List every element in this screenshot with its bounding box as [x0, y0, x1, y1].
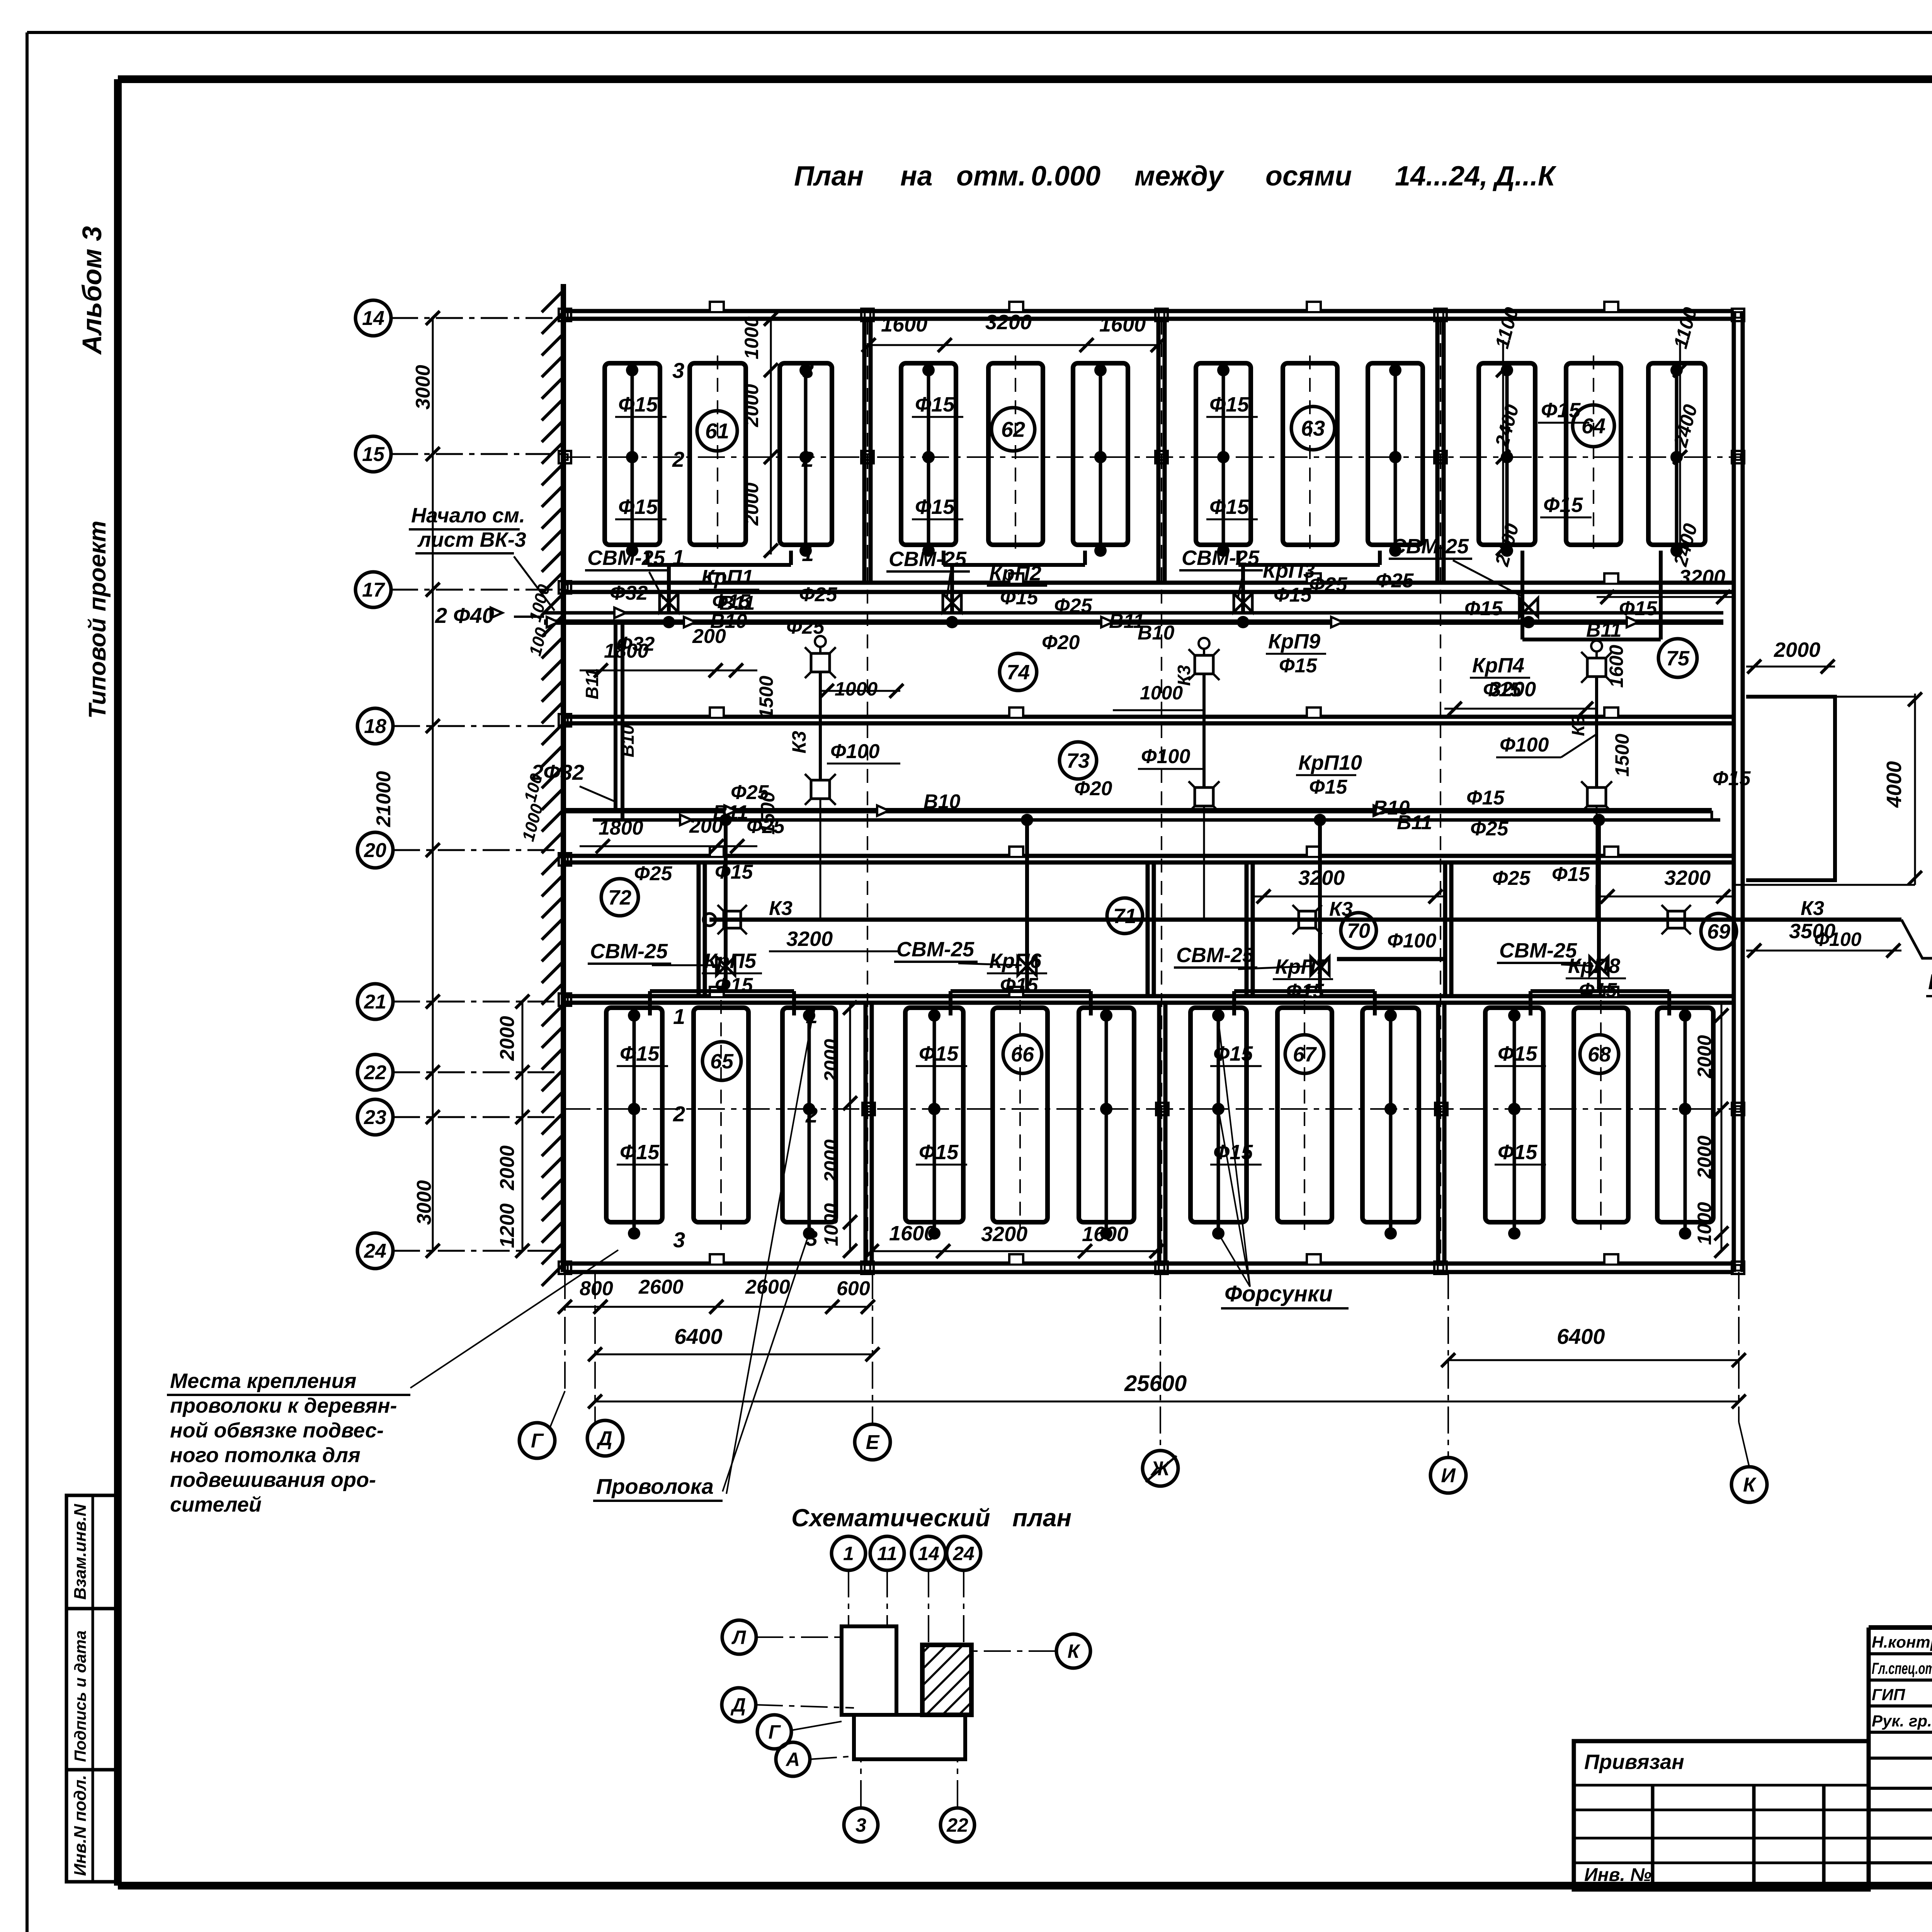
svg-text:Ф20: Ф20	[1074, 777, 1112, 800]
svg-text:Ф15: Ф15	[618, 393, 658, 416]
svg-text:Ф15: Ф15	[620, 1141, 660, 1164]
svg-text:Г: Г	[531, 1430, 544, 1452]
svg-text:Н.контр.: Н.контр.	[1872, 1633, 1932, 1651]
svg-text:1000: 1000	[1694, 1202, 1715, 1245]
svg-text:21: 21	[364, 991, 386, 1013]
svg-text:КрП6: КрП6	[989, 949, 1042, 973]
svg-text:КрП5: КрП5	[704, 949, 757, 973]
svg-text:Ф15: Ф15	[1713, 767, 1751, 790]
svg-text:20: 20	[364, 839, 386, 862]
svg-text:Ф20: Ф20	[1042, 631, 1080, 654]
svg-text:Ф15: Ф15	[1274, 584, 1312, 606]
svg-text:2600: 2600	[745, 1276, 790, 1298]
svg-text:Форсунки: Форсунки	[1225, 1281, 1333, 1306]
svg-text:0.000: 0.000	[1031, 161, 1100, 192]
svg-text:СВМ-25: СВМ-25	[896, 938, 975, 961]
svg-text:21000: 21000	[372, 771, 395, 827]
svg-text:план: план	[1012, 1504, 1071, 1532]
svg-text:65: 65	[710, 1050, 734, 1073]
svg-text:Ф15: Ф15	[715, 974, 753, 997]
svg-text:1800: 1800	[604, 640, 649, 662]
svg-text:Привязан: Привязан	[1584, 1750, 1684, 1774]
svg-text:Ф15: Ф15	[1498, 1042, 1537, 1065]
svg-text:Ф15: Ф15	[915, 393, 955, 416]
svg-text:Ф100: Ф100	[830, 740, 879, 763]
svg-text:К: К	[1743, 1474, 1757, 1496]
svg-text:Ф100: Ф100	[1141, 745, 1190, 768]
svg-text:СВМ-25: СВМ-25	[587, 546, 665, 570]
svg-text:Ф15: Ф15	[919, 1141, 959, 1164]
svg-text:Ф15: Ф15	[1000, 974, 1039, 997]
svg-text:66: 66	[1011, 1043, 1034, 1066]
svg-text:ного потолка для: ного потолка для	[170, 1444, 361, 1467]
svg-text:67: 67	[1293, 1043, 1317, 1066]
svg-text:КрП10: КрП10	[1298, 751, 1362, 774]
svg-text:24: 24	[364, 1240, 386, 1262]
svg-text:на: на	[900, 161, 933, 192]
svg-text:Ф15: Ф15	[715, 861, 753, 883]
svg-text:Ф15: Ф15	[1213, 1042, 1253, 1065]
svg-text:2000: 2000	[741, 384, 762, 427]
svg-text:К3: К3	[1174, 665, 1194, 686]
svg-text:3200: 3200	[1679, 566, 1725, 589]
svg-text:64: 64	[1582, 414, 1605, 438]
svg-text:1800: 1800	[599, 817, 643, 839]
svg-text:В10: В10	[1138, 622, 1174, 644]
svg-text:КрП8: КрП8	[1568, 954, 1620, 978]
svg-text:Ф15: Ф15	[1579, 979, 1617, 1002]
svg-text:Ф15: Ф15	[1619, 597, 1658, 620]
svg-text:Ф15: Ф15	[1209, 393, 1249, 416]
svg-text:отм.: отм.	[956, 161, 1026, 192]
svg-text:СВМ-25: СВМ-25	[1499, 939, 1577, 962]
svg-text:1600: 1600	[1082, 1223, 1128, 1246]
svg-text:1000: 1000	[835, 678, 878, 700]
svg-text:3: 3	[802, 358, 814, 383]
svg-text:КрП2: КрП2	[989, 562, 1041, 585]
svg-text:23: 23	[364, 1106, 386, 1129]
svg-text:1: 1	[802, 541, 814, 566]
svg-text:3200: 3200	[985, 311, 1032, 334]
svg-text:Ф25: Ф25	[799, 583, 838, 606]
svg-text:3200: 3200	[1298, 866, 1345, 889]
svg-text:3200: 3200	[786, 927, 833, 951]
svg-text:К3: К3	[1568, 715, 1588, 736]
svg-text:Ф25: Ф25	[1470, 818, 1509, 840]
svg-text:А: А	[785, 1749, 800, 1770]
svg-text:Альбом 3: Альбом 3	[77, 226, 107, 355]
svg-text:К3: К3	[769, 897, 793, 920]
svg-text:61: 61	[705, 419, 729, 443]
svg-text:Г: Г	[769, 1721, 781, 1743]
svg-text:Гл.спец.отд: Гл.спец.отд	[1872, 1659, 1932, 1677]
svg-text:15: 15	[362, 443, 385, 466]
svg-text:2000: 2000	[820, 1039, 842, 1082]
svg-text:ной обвязке подвес-: ной обвязке подвес-	[170, 1419, 384, 1442]
svg-text:Ф15: Ф15	[1552, 863, 1590, 886]
svg-text:Инв.N подл.: Инв.N подл.	[71, 1775, 90, 1876]
svg-text:лист ВК-3: лист ВК-3	[417, 528, 526, 551]
svg-text:КрП7: КрП7	[1275, 955, 1328, 978]
svg-text:1: 1	[843, 1543, 854, 1565]
svg-text:2600: 2600	[638, 1276, 684, 1298]
svg-text:В10: В10	[617, 724, 638, 757]
svg-text:2Ф32: 2Ф32	[531, 760, 584, 784]
svg-text:25600: 25600	[1124, 1371, 1187, 1396]
svg-text:200: 200	[692, 625, 726, 648]
svg-text:Л: Л	[731, 1627, 747, 1648]
svg-text:1000: 1000	[741, 316, 762, 359]
svg-text:3000: 3000	[413, 1180, 435, 1225]
svg-text:14: 14	[362, 307, 384, 330]
svg-text:2: 2	[805, 1103, 818, 1127]
svg-text:Ф15: Ф15	[919, 1042, 959, 1065]
svg-text:70: 70	[1347, 919, 1370, 942]
svg-text:3200: 3200	[981, 1223, 1027, 1246]
svg-text:1600: 1600	[889, 1222, 935, 1245]
svg-text:Начало см.: Начало см.	[411, 504, 525, 527]
svg-text:68: 68	[1588, 1043, 1611, 1066]
svg-text:1500: 1500	[755, 676, 777, 719]
svg-text:3200: 3200	[1664, 866, 1711, 889]
svg-text:3: 3	[673, 1228, 685, 1252]
svg-text:СВМ-25: СВМ-25	[590, 940, 668, 963]
svg-text:И: И	[1441, 1464, 1456, 1487]
svg-text:2: 2	[672, 447, 684, 471]
svg-text:11: 11	[877, 1543, 897, 1565]
svg-text:Ф25: Ф25	[786, 616, 825, 638]
svg-text:2000: 2000	[496, 1016, 519, 1061]
svg-text:1: 1	[673, 1004, 685, 1029]
svg-text:1600: 1600	[881, 313, 927, 336]
svg-text:Д: Д	[596, 1427, 612, 1450]
svg-text:Ф25: Ф25	[634, 862, 673, 885]
svg-text:КрП9: КрП9	[1268, 630, 1320, 653]
svg-text:75: 75	[1666, 647, 1690, 670]
svg-text:2: 2	[801, 447, 814, 471]
svg-text:КрП4: КрП4	[1472, 654, 1524, 677]
svg-text:22: 22	[946, 1815, 968, 1836]
svg-text:17: 17	[362, 579, 385, 601]
svg-text:К: К	[1068, 1641, 1081, 1662]
svg-text:3: 3	[855, 1815, 866, 1836]
svg-text:73: 73	[1066, 749, 1090, 772]
svg-text:Ф15: Ф15	[1286, 980, 1325, 1002]
svg-text:между: между	[1134, 161, 1225, 192]
svg-text:Ф15: Ф15	[618, 495, 658, 519]
svg-text:2000: 2000	[820, 1139, 842, 1183]
svg-text:2000: 2000	[741, 483, 762, 526]
svg-text:1000: 1000	[820, 1203, 842, 1246]
svg-text:Д: Д	[730, 1694, 746, 1716]
svg-text:К3: К3	[788, 731, 810, 753]
svg-text:14...24,: 14...24,	[1395, 161, 1488, 192]
svg-text:1500: 1500	[757, 792, 779, 835]
svg-text:Схематический: Схематический	[791, 1504, 990, 1532]
svg-text:Е: Е	[866, 1431, 880, 1454]
svg-text:Взам.инв.N: Взам.инв.N	[71, 1503, 90, 1600]
svg-text:2000: 2000	[496, 1145, 519, 1190]
svg-text:63: 63	[1301, 416, 1325, 440]
svg-text:69: 69	[1707, 920, 1730, 943]
svg-text:План: План	[794, 161, 864, 192]
svg-text:Выпуск К3-2: Выпуск К3-2	[1928, 969, 1932, 994]
svg-text:Ф15: Ф15	[620, 1042, 660, 1065]
svg-text:3000: 3000	[412, 365, 434, 410]
svg-text:осями: осями	[1265, 161, 1352, 192]
svg-text:Ф32: Ф32	[610, 582, 648, 604]
svg-text:СВМ-25: СВМ-25	[1182, 546, 1260, 570]
svg-text:74: 74	[1007, 661, 1030, 684]
svg-text:2 Ф40: 2 Ф40	[435, 603, 494, 628]
svg-text:3: 3	[672, 358, 684, 383]
svg-text:КрП1: КрП1	[701, 566, 753, 589]
svg-text:Д...К: Д...К	[1492, 161, 1557, 192]
svg-text:Ф25: Ф25	[1376, 570, 1414, 592]
svg-text:Ф15: Ф15	[1000, 587, 1039, 609]
svg-text:200: 200	[689, 815, 723, 837]
svg-text:2: 2	[673, 1102, 685, 1126]
svg-text:6400: 6400	[674, 1324, 723, 1349]
svg-text:Ф15: Ф15	[1498, 1141, 1537, 1164]
svg-text:В11: В11	[1586, 619, 1622, 641]
svg-text:проволоки к деревян-: проволоки к деревян-	[170, 1394, 397, 1417]
svg-text:СВМ-25: СВМ-25	[1176, 944, 1254, 967]
svg-text:18: 18	[364, 715, 386, 738]
svg-text:14: 14	[918, 1543, 939, 1565]
svg-text:62: 62	[1001, 417, 1025, 442]
svg-text:1600: 1600	[1605, 645, 1627, 688]
svg-text:800: 800	[580, 1277, 613, 1300]
svg-text:Ф15: Ф15	[1309, 776, 1348, 798]
svg-text:600: 600	[837, 1277, 870, 1300]
svg-text:72: 72	[608, 886, 631, 909]
svg-text:24: 24	[952, 1543, 975, 1565]
svg-text:СВМ-25: СВМ-25	[1391, 535, 1469, 558]
svg-text:В10: В10	[923, 791, 960, 813]
svg-text:Ф15: Ф15	[1209, 495, 1249, 519]
svg-text:1600: 1600	[1099, 313, 1146, 336]
svg-text:6400: 6400	[1557, 1324, 1605, 1349]
svg-text:Рук. гр.: Рук. гр.	[1872, 1712, 1932, 1730]
svg-text:Ф15: Ф15	[1464, 597, 1503, 620]
svg-text:Ф15: Ф15	[1279, 655, 1318, 677]
svg-text:Места крепления: Места крепления	[170, 1369, 356, 1393]
svg-text:1500: 1500	[1611, 734, 1633, 777]
svg-text:СВМ-25: СВМ-25	[889, 548, 967, 571]
svg-text:КрП3: КрП3	[1263, 559, 1315, 582]
svg-text:Ф15: Ф15	[915, 495, 955, 519]
svg-text:Подпись и дата: Подпись и дата	[71, 1631, 89, 1762]
svg-text:Инв. №: Инв. №	[1584, 1865, 1651, 1885]
svg-text:2000: 2000	[1694, 1035, 1715, 1078]
svg-text:Типовой проект: Типовой проект	[84, 520, 111, 719]
svg-text:4000: 4000	[1883, 761, 1906, 808]
svg-text:Ф100: Ф100	[1500, 734, 1549, 756]
svg-text:1200: 1200	[496, 1203, 519, 1248]
svg-text:2000: 2000	[1694, 1136, 1715, 1179]
svg-text:Проволока: Проволока	[596, 1474, 714, 1498]
svg-text:Ф25: Ф25	[1492, 867, 1531, 889]
svg-text:3200: 3200	[1490, 678, 1536, 701]
svg-text:3500: 3500	[1789, 920, 1835, 943]
svg-text:Ф25: Ф25	[1309, 573, 1348, 596]
svg-text:Ф15: Ф15	[1543, 493, 1583, 517]
svg-text:К3: К3	[1801, 897, 1824, 920]
svg-text:Ф15: Ф15	[1466, 787, 1505, 809]
svg-text:2000: 2000	[1774, 638, 1820, 662]
svg-text:ГИП: ГИП	[1872, 1685, 1905, 1704]
svg-text:подвешивания оро-: подвешивания оро-	[170, 1468, 376, 1492]
svg-text:В11: В11	[1397, 811, 1432, 834]
svg-text:сителей: сителей	[170, 1493, 262, 1516]
svg-text:71: 71	[1113, 905, 1136, 928]
svg-text:Ф25: Ф25	[1054, 595, 1093, 617]
svg-text:Ф100: Ф100	[1387, 930, 1436, 952]
svg-text:22: 22	[364, 1061, 386, 1084]
